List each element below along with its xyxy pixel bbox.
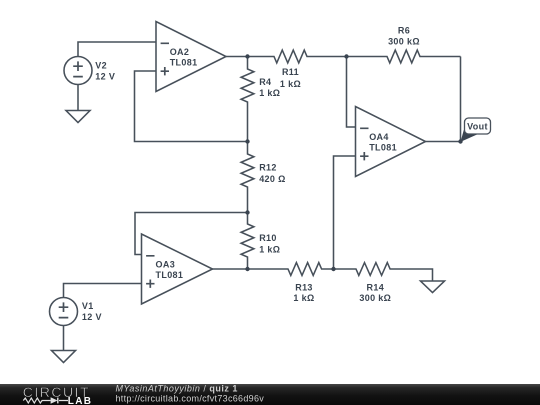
wire OA3 non-inverting input to V1 [64,284,142,298]
node G [331,267,335,271]
footer bar [0,384,540,405]
resistor R11 [248,50,347,63]
op-amp OA4 [356,107,426,177]
Vout flag tail [461,130,478,142]
op-amp OA2 [156,22,226,92]
resistor R12 [241,142,254,213]
wire R6 right to node F [460,57,462,142]
wire OA4 output to node F [426,141,461,143]
svg-text:LAB: LAB [68,396,92,405]
ground below V1 [52,351,76,363]
svg-text:MYasinAtThoyyibin / quiz 1: MYasinAtThoyyibin / quiz 1 [116,383,238,393]
node F [458,139,462,143]
node D [245,267,249,271]
wire OA4 non-inverting input to node G [334,156,356,269]
svg-text:http://circuitlab.com/cfvt73c6: http://circuitlab.com/cfvt73c66d96v [116,393,265,403]
node C [245,210,249,214]
wire V2 to OA2 inverting input [78,42,156,57]
wire V1 to ground [63,326,65,351]
voltage source V1 [50,298,78,326]
wire OA3 output to node D [213,268,248,270]
wire OA3 inverting feedback loop to node C [135,213,248,255]
node A [245,54,249,58]
wire V2 to ground [77,85,79,111]
op-amp OA3 [142,234,213,304]
node E [344,54,348,58]
wire OA2 output to node A [226,56,248,58]
resistor R4 [241,57,254,142]
resistor R6 [347,50,461,63]
ground below V2 [66,111,90,123]
resistor R10 [241,213,254,270]
wire OA2 non-inverting feedback loop to node B [135,71,248,142]
resistor R13 [248,263,334,276]
logo resistor squiggle and diode [23,398,68,404]
wire node E to OA4 inverting input [347,57,356,128]
Vout flag [465,118,491,134]
voltage source V2 [64,57,92,85]
ground right of R14 [421,281,445,293]
node B [245,139,249,143]
resistor R14 [334,263,433,281]
